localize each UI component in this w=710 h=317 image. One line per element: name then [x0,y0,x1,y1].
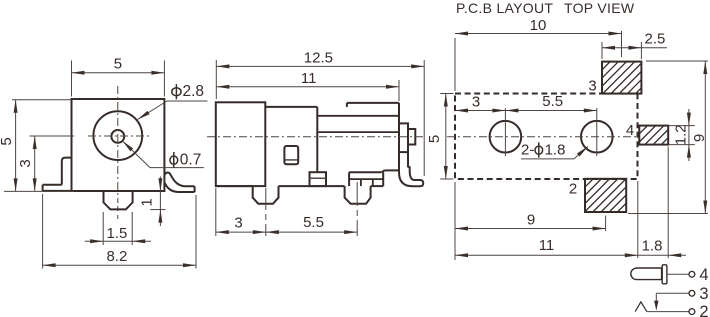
svg-text:5.5: 5.5 [303,214,324,231]
svg-text:2.8: 2.8 [183,83,205,100]
svg-text:3: 3 [588,78,596,95]
svg-text:5: 5 [114,55,122,72]
svg-text:1.8: 1.8 [545,142,566,159]
svg-text:5.5: 5.5 [542,93,563,110]
svg-text:1.2: 1.2 [673,124,690,145]
svg-text:5: 5 [0,137,15,145]
svg-text:4: 4 [626,122,634,139]
svg-text:1: 1 [139,198,156,206]
svg-text:TOP VIEW: TOP VIEW [564,0,635,16]
svg-text:4: 4 [699,266,708,284]
svg-text:9: 9 [691,134,708,142]
svg-text:8.2: 8.2 [106,248,127,265]
svg-text:2-: 2- [521,142,534,159]
svg-text:10: 10 [530,17,547,34]
svg-text:P.C.B LAYOUT: P.C.B LAYOUT [456,0,553,16]
svg-text:2.5: 2.5 [645,31,666,48]
svg-text:11: 11 [301,70,317,87]
svg-text:3: 3 [699,285,708,303]
svg-text:3: 3 [472,93,480,110]
svg-text:3: 3 [17,159,34,167]
svg-text:0.7: 0.7 [180,151,202,168]
svg-text:3: 3 [234,214,242,231]
svg-text:2: 2 [569,181,577,198]
svg-text:2: 2 [699,303,708,317]
svg-text:12.5: 12.5 [304,49,333,66]
svg-text:5: 5 [426,135,443,143]
svg-text:9: 9 [527,212,535,229]
svg-text:1.8: 1.8 [642,238,663,255]
svg-text:11: 11 [539,237,555,254]
svg-text:1.5: 1.5 [106,225,127,242]
